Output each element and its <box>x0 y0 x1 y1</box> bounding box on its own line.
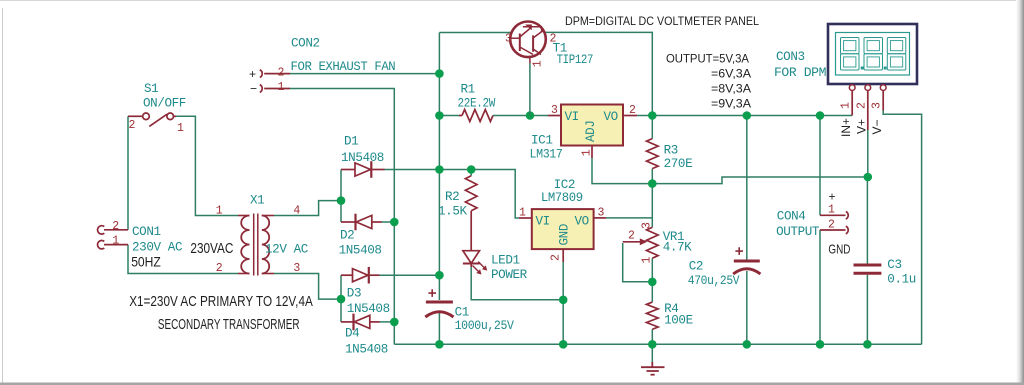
wire D4 anode to negative rail <box>379 321 394 323</box>
capacitor C3 <box>854 264 882 267</box>
plus of C2 <box>735 247 743 255</box>
LED1 cathode lead <box>470 264 472 268</box>
transformer X1 secondary coil <box>262 216 269 274</box>
svg-text:IN+: IN+ <box>839 118 853 137</box>
wire ADJ node to VR1 top <box>651 184 653 228</box>
svg-text:VI: VI <box>565 110 579 124</box>
svg-text:LM7809: LM7809 <box>541 191 583 205</box>
svg-text:D2: D2 <box>340 229 354 243</box>
svg-text:GND: GND <box>558 224 572 245</box>
ground <box>641 362 665 375</box>
svg-text:VO: VO <box>575 215 589 229</box>
svg-text:2: 2 <box>628 230 635 243</box>
wire T1 pin3 base wire <box>439 32 510 34</box>
op-amp U/IC1 box <box>561 105 623 146</box>
svg-text:1: 1 <box>532 60 545 67</box>
svg-text:3: 3 <box>551 104 558 117</box>
wire C2 top lead <box>746 116 748 260</box>
wire CON4 pin1 from output bus <box>819 116 821 216</box>
connector CON1 pin 2 hook <box>98 226 105 234</box>
wire transformer pin3 to node D3-D4 <box>274 274 341 300</box>
capacitor C2 <box>734 260 760 263</box>
wire R2 node to IC2 VI <box>471 170 519 219</box>
svg-text:270E: 270E <box>664 157 693 171</box>
wire R2 top node <box>439 170 471 176</box>
connector CON2 pin 2 hook <box>260 70 262 78</box>
svg-text:2: 2 <box>278 67 285 80</box>
IC2 VO pin lead <box>594 217 606 219</box>
svg-text:3: 3 <box>871 102 884 109</box>
transformer X1 core <box>254 214 258 276</box>
svg-text:V+: V+ <box>855 119 869 134</box>
capacitor C1 <box>426 301 453 304</box>
wire transformer pin4 to node D1-D2 <box>274 201 341 216</box>
svg-text:1: 1 <box>216 204 223 217</box>
IC1 ADJ pin lead <box>591 146 593 159</box>
svg-text:VI: VI <box>536 215 550 229</box>
svg-text:2: 2 <box>112 220 119 233</box>
svg-text:1: 1 <box>519 207 526 220</box>
svg-text:1N5408: 1N5408 <box>339 244 382 258</box>
svg-text:V−: V− <box>870 119 884 134</box>
svg-text:1N5408: 1N5408 <box>341 151 384 165</box>
svg-text:CON3: CON3 <box>776 50 805 64</box>
wire D1 cathode to +raw rail <box>384 169 439 171</box>
svg-text:R1: R1 <box>461 82 475 96</box>
svg-text:C1: C1 <box>455 305 469 319</box>
svg-text:1: 1 <box>640 257 653 264</box>
svg-text:ON/OFF: ON/OFF <box>143 97 186 111</box>
switch S1 <box>128 113 176 126</box>
LED1 anode lead <box>470 211 472 251</box>
svg-text:ADJ: ADJ <box>584 121 598 142</box>
svg-text:2: 2 <box>216 262 223 275</box>
svg-text:CON2: CON2 <box>291 37 320 51</box>
svg-text:470u,25V: 470u,25V <box>688 274 740 288</box>
wire R3 bottom to ADJ node <box>651 169 653 184</box>
wire R1 to IC1 VI <box>493 115 548 117</box>
svg-text:D4: D4 <box>345 327 359 341</box>
wire VR1 bottom node <box>651 258 653 302</box>
svg-text:2: 2 <box>855 102 868 109</box>
svg-text:2: 2 <box>129 119 136 132</box>
wire DPM V+ to sense node <box>867 130 869 177</box>
svg-text:C3: C3 <box>887 258 901 272</box>
plus of C1 <box>428 289 436 297</box>
svg-text:12V AC: 12V AC <box>265 243 309 257</box>
wire CON1 pin1 to transformer pin2 <box>128 245 238 274</box>
svg-text:1: 1 <box>177 122 184 135</box>
svg-text:FOR EXHAUST FAN: FOR EXHAUST FAN <box>291 60 396 74</box>
wire S1 pin2 to CON1 pin2 rail <box>127 116 129 230</box>
svg-text:OUTPUT: OUTPUT <box>776 225 820 239</box>
svg-text:22E.2W: 22E.2W <box>458 96 496 110</box>
svg-text:1N5408: 1N5408 <box>345 343 388 357</box>
DPM pin 3 lead <box>882 91 884 111</box>
wire D1-D2 rail <box>340 170 342 223</box>
svg-text:R2: R2 <box>445 190 459 204</box>
svg-text:3: 3 <box>293 262 300 275</box>
svg-text:3: 3 <box>598 207 605 220</box>
svg-text:D3: D3 <box>347 287 361 301</box>
wire R4 bottom to ground bus <box>651 329 653 344</box>
svg-text:=8V,3A: =8V,3A <box>711 82 751 96</box>
transformer X1 primary coil <box>241 216 249 274</box>
resistor R3 <box>647 139 659 169</box>
wire R1 left lead <box>439 115 459 117</box>
wire S1 pin1 to transformer pin1 <box>176 116 238 215</box>
connector CON2 pin 1 hook <box>260 85 262 93</box>
svg-text:1: 1 <box>840 102 853 109</box>
wire output bus <box>652 115 852 117</box>
wire CON2 pin2 (+) to +raw rail <box>290 73 439 75</box>
svg-text:2: 2 <box>828 219 835 232</box>
resistor R1 <box>459 115 462 117</box>
transistor T1 <box>510 22 546 64</box>
resistor R4 <box>647 302 659 329</box>
diode D3 <box>341 274 352 276</box>
potentiometer VR1 <box>647 227 659 258</box>
svg-text:4: 4 <box>293 204 300 217</box>
connector CON4 pin 2 <box>820 229 846 231</box>
LED LED1 <box>463 251 480 264</box>
DPM pin circles <box>849 85 886 91</box>
wire CON4 pin2 to ground bus <box>819 230 821 344</box>
svg-text:VO: VO <box>604 110 618 124</box>
svg-text:=6V,3A: =6V,3A <box>711 67 751 81</box>
IC1 VO pin lead <box>623 115 637 117</box>
IC2 VI pin lead <box>519 217 532 219</box>
resistor R2 <box>465 176 477 211</box>
svg-text:1: 1 <box>278 81 285 94</box>
svg-text:−: − <box>250 82 257 96</box>
wire LED1 cathode to IC2 GND node <box>471 267 563 300</box>
IC2 box <box>532 209 594 249</box>
svg-text:S1: S1 <box>144 82 158 96</box>
wire ground bus <box>394 343 921 345</box>
svg-text:GND: GND <box>828 243 850 257</box>
svg-text:DPM=DIGITAL DC VOLTMETER PANEL: DPM=DIGITAL DC VOLTMETER PANEL <box>565 16 760 28</box>
svg-text:LED1: LED1 <box>491 254 520 268</box>
wire C3 bottom lead <box>866 275 868 345</box>
IC1 VI pin lead <box>548 115 561 117</box>
svg-text:C2: C2 <box>689 260 703 274</box>
svg-text:1000u,25V: 1000u,25V <box>455 319 515 333</box>
wire D3 cathode to +raw rail <box>379 274 439 276</box>
svg-text:LM317: LM317 <box>530 148 563 162</box>
svg-text:CON1: CON1 <box>132 225 161 239</box>
DPM pin 2 lead <box>867 91 869 131</box>
svg-text:IC1: IC1 <box>531 134 552 148</box>
svg-text:POWER: POWER <box>491 268 528 282</box>
wire D2 anode to negative rail <box>381 221 394 223</box>
svg-text:100E: 100E <box>664 314 693 328</box>
wire IC2 VO to VR1 rail <box>606 217 652 219</box>
diode D2 <box>341 221 355 223</box>
svg-text:R3: R3 <box>664 144 678 158</box>
wire IC1 VO to output bus <box>637 115 652 117</box>
svg-text:CON4: CON4 <box>777 210 806 224</box>
DPM 7-segment digits <box>841 38 906 71</box>
svg-text:SECONDARY TRANSFORMER: SECONDARY TRANSFORMER <box>158 316 300 333</box>
wire IC1 ADJ to node <box>592 158 652 184</box>
wire DPM V- to ground rail <box>883 111 921 345</box>
wire C3 top lead <box>866 177 868 264</box>
svg-text:2: 2 <box>550 254 563 261</box>
svg-text:1: 1 <box>828 204 835 217</box>
wire CON2 pin1 (-) negative rail <box>290 89 394 345</box>
IC2 GND pin lead <box>562 249 564 262</box>
svg-text:=9V,3A: =9V,3A <box>711 97 751 111</box>
wire D3-D4 rail <box>340 275 342 322</box>
wire C2 bottom lead <box>746 271 748 344</box>
wire R3 top lead <box>651 116 653 139</box>
wire +raw vertical rail <box>438 33 440 301</box>
svg-text:+: + <box>829 190 836 204</box>
diode D4 <box>341 321 353 323</box>
connector CON4 pin 1 <box>820 214 846 216</box>
wire IC2 GND to ground bus <box>562 262 564 344</box>
wire ADJ node jog to C3/V+ node <box>652 177 867 184</box>
connector CON1 pin 1 hook <box>98 241 105 249</box>
svg-text:230VAC: 230VAC <box>190 240 233 257</box>
svg-text:230V AC: 230V AC <box>132 240 183 254</box>
svg-text:FOR DPM: FOR DPM <box>774 66 826 80</box>
diode D1 <box>341 169 355 171</box>
wire C1 bottom to ground bus <box>438 312 440 344</box>
svg-text:0.1u: 0.1u <box>887 273 916 287</box>
svg-text:2: 2 <box>629 104 636 117</box>
svg-text:1.5K: 1.5K <box>438 205 467 219</box>
svg-text:X1=230V AC PRIMARY TO 12V,4A: X1=230V AC PRIMARY TO 12V,4A <box>129 293 313 310</box>
svg-text:TIP127: TIP127 <box>557 53 594 67</box>
svg-text:3: 3 <box>505 33 512 46</box>
wire ground stub <box>651 344 653 362</box>
wire T1 pin2 to output bus <box>545 32 652 115</box>
svg-text:50HZ: 50HZ <box>131 254 161 270</box>
connector CON3 DPM box <box>828 24 917 84</box>
DPM pin 1 lead <box>851 91 853 116</box>
wire T1 emitter to node <box>529 64 531 116</box>
svg-text:+: + <box>249 67 256 81</box>
svg-text:OUTPUT=5V,3A: OUTPUT=5V,3A <box>666 52 749 66</box>
svg-text:4.7K: 4.7K <box>663 241 692 255</box>
wire VR1 wiper to VR1 bottom <box>623 243 653 282</box>
svg-text:X1: X1 <box>250 193 264 207</box>
svg-text:1: 1 <box>581 149 594 156</box>
svg-text:3: 3 <box>640 222 653 229</box>
svg-text:D1: D1 <box>344 135 358 149</box>
svg-text:1: 1 <box>112 235 119 248</box>
